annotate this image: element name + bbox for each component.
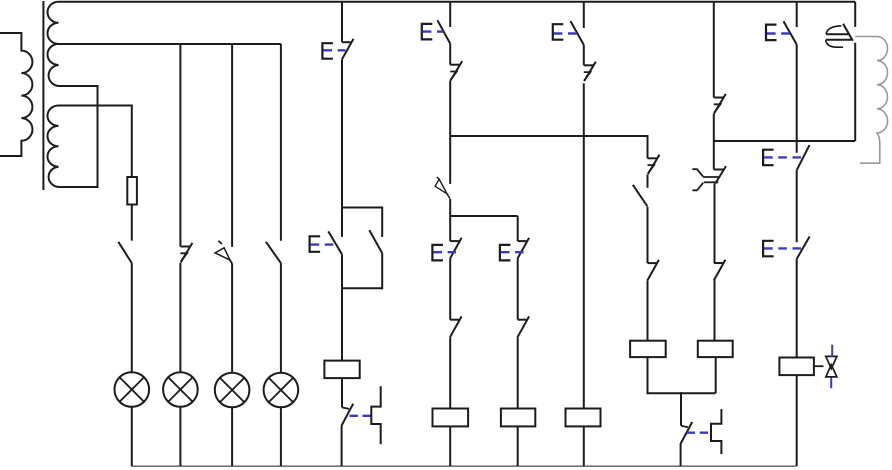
top supply rail L1	[59, 1, 856, 3]
wire Q6 to arc contact	[713, 113, 715, 169]
wire split to pushbutton E4	[449, 216, 451, 241]
pushbutton E6 blade	[571, 21, 584, 45]
linked contact mid dashes	[687, 432, 709, 434]
wire coil K5 to converge	[647, 357, 649, 393]
NC pushbutton E5	[518, 240, 527, 242]
pushbutton E4 label E	[432, 245, 443, 261]
wire lamp H1 to N rail	[131, 407, 133, 466]
lamp H1 circle	[115, 372, 150, 407]
wire lamp H3 to N rail	[231, 407, 233, 466]
transformer T1 lower secondary winding	[48, 106, 59, 188]
valve pilot line top	[831, 345, 833, 357]
linked contact mid	[681, 426, 688, 428]
lamp H2 cross stroke	[168, 377, 192, 401]
wire L2 rail end to switch S4	[280, 44, 282, 241]
transformer T1 core	[42, 1, 44, 190]
wire S4 to lamp H4	[280, 263, 282, 373]
relay coil K6	[698, 341, 733, 357]
NC contact K2a	[450, 319, 459, 321]
pushbutton E7 blade	[784, 21, 797, 44]
pushbutton E3 link dashes	[423, 30, 444, 32]
arc contact tick	[714, 169, 725, 171]
limit switch S3 link	[230, 260, 232, 263]
NC contact K3a	[518, 316, 530, 337]
wire lamp H4 to N rail	[280, 407, 282, 466]
breaker contact Q4	[584, 64, 593, 66]
wedge contact S5 tick	[437, 177, 439, 179]
switch S4 blade	[266, 242, 281, 263]
arc-quench bar 2	[826, 39, 852, 41]
wire K2a to coil K2	[449, 337, 451, 408]
arc-quench bottom arc	[826, 40, 843, 47]
transformer T1 primary winding	[0, 33, 32, 156]
bottom return rail N	[131, 465, 797, 467]
NO contact K4a blade	[633, 185, 648, 207]
pushbutton E8 label E	[763, 150, 774, 166]
lamp H4 cross stroke 2	[269, 378, 293, 402]
breaker contact Q6	[714, 104, 721, 112]
wire lamp H2 to N rail	[179, 407, 181, 466]
valve symbol upper triangle	[826, 356, 837, 368]
valve link wire	[814, 365, 824, 367]
wedge contact S5 link	[447, 194, 450, 199]
wedge contact S5 wedge	[435, 179, 447, 194]
wire arc-quench to node row	[854, 43, 856, 141]
valve symbol lower triangle	[826, 365, 837, 377]
NC pushbutton E1	[342, 39, 354, 60]
solenoid coil Y1	[779, 358, 814, 376]
seal-in branch upper wire	[381, 207, 383, 237]
wire L2 rail to breaker Q2	[179, 44, 181, 247]
pushbutton E2 link dashes	[311, 243, 335, 245]
NC contact K3a	[518, 319, 527, 321]
parallel group top wire	[342, 207, 382, 209]
wire coil K4 to N rail	[583, 426, 585, 466]
arc-quench top arc	[826, 26, 841, 34]
wire Q2 to lamp H2	[179, 263, 181, 373]
arc-quench contact blade	[843, 24, 853, 41]
wire Q3 through node to wedge contact	[449, 81, 451, 184]
linked contact mid	[681, 422, 693, 444]
limit switch S3 wedge	[215, 248, 230, 260]
pushbutton E4 link dashes	[433, 251, 456, 253]
arc-quench bar 1	[826, 33, 850, 35]
relay coil K2	[433, 409, 469, 427]
breaker contact Q6	[714, 97, 723, 99]
NC contact K6a	[714, 260, 726, 281]
wire E3 to breaker Q3	[449, 44, 451, 65]
pushbutton E9 blade	[797, 237, 810, 259]
wire node row to pushbutton E8	[796, 141, 798, 153]
wire upper-secondary bottom tap	[59, 86, 98, 187]
arc contact bar 1	[703, 176, 719, 178]
pushbutton E5 link dashes	[501, 251, 524, 253]
wire linked contact to N rail	[341, 426, 343, 467]
wire linked contact mid to N rail	[680, 443, 682, 466]
second rail L2	[59, 43, 281, 45]
transformer T1 upper secondary winding	[48, 2, 59, 86]
parallel group bottom wire	[342, 287, 382, 289]
wire node row y141	[714, 140, 855, 142]
breaker contact Q3	[450, 72, 457, 80]
lamp H3 circle	[215, 373, 250, 408]
wire S5 to branch split	[449, 199, 451, 217]
wire arc contact to contact K6a	[714, 184, 716, 264]
pushbutton E5 label E	[500, 245, 511, 261]
valve pilot line bottom	[830, 377, 832, 388]
lamp H2 cross stroke 2	[168, 377, 192, 401]
pushbutton E8 link dashes	[764, 156, 802, 158]
wire L1 to pushbutton E3	[449, 2, 451, 27]
breaker contact Q4	[584, 72, 591, 80]
wire E1 to parallel group	[341, 60, 343, 209]
NC pushbutton E4	[450, 238, 462, 259]
limit switch S3 actuator tick	[219, 241, 222, 244]
relay coil K1	[324, 361, 359, 379]
fuse F1	[127, 177, 137, 205]
pushbutton E3 label E	[422, 24, 433, 40]
seal-in branch lower wire	[381, 253, 383, 289]
wire K4a to contact K5a	[647, 207, 649, 263]
wire group to coil K1	[341, 288, 343, 360]
lamp H4 cross stroke	[269, 378, 293, 402]
wire K6a to coil K6	[714, 281, 716, 341]
converge wire	[647, 392, 716, 394]
wire L1 right end down	[854, 2, 856, 27]
wire L1 to contact E1	[341, 2, 343, 43]
linked contact under K1	[342, 404, 354, 426]
wire node to breaker Q5	[647, 135, 649, 158]
wire K5a to coil K5	[647, 281, 649, 341]
wire K3a to coil K3	[517, 337, 519, 408]
lamp H1 cross stroke 2	[120, 377, 144, 401]
relay coil K4	[566, 409, 601, 427]
switch S1 blade	[118, 242, 132, 263]
wire split to pushbutton E5	[517, 216, 519, 241]
lamp H4 circle	[264, 373, 299, 408]
wire E7 to node row	[796, 45, 798, 142]
mechanical latch bracket mid	[711, 409, 721, 454]
pushbutton E3 blade	[437, 20, 450, 43]
breaker contact Q5	[648, 165, 655, 173]
NC pushbutton E4	[450, 240, 459, 242]
solenoid lead	[855, 36, 877, 38]
wire L1 to pushbutton E6	[583, 2, 585, 28]
wire E8 to pushbutton E9	[796, 170, 798, 242]
wire S1 to lamp H1	[131, 263, 133, 372]
wire Q4 to coil K4	[583, 83, 585, 408]
NC contact K2a	[450, 316, 462, 337]
pushbutton E1 link dashes	[323, 49, 345, 51]
breaker contact Q6	[714, 94, 726, 113]
wire coil Y1 to N rail	[796, 375, 798, 466]
pushbutton E9 link dashes	[764, 247, 802, 249]
wire E2 to group bottom	[341, 254, 343, 289]
pushbutton E9 label E	[763, 241, 774, 256]
breaker contact Q4	[584, 62, 596, 81]
arc contact blade	[715, 166, 726, 183]
wire coil K6 to converge	[715, 357, 717, 393]
pushbutton E7 link dashes	[767, 32, 792, 34]
NC pushbutton E1	[342, 41, 351, 43]
wire L2 rail to limit switch S3	[231, 44, 233, 247]
lamp H3 cross stroke	[220, 378, 244, 402]
pushbutton E8 blade	[797, 145, 810, 170]
pushbutton E6 link dashes	[554, 32, 577, 34]
wire lower-secondary to fuse	[59, 106, 132, 178]
breaker contact Q5	[648, 157, 657, 159]
breaker contact Q2	[181, 243, 193, 262]
mechanical latch bracket	[371, 386, 380, 444]
linked contact dashes	[350, 415, 371, 417]
wire L1 to breaker Q6	[713, 2, 715, 98]
breaker contact Q3	[451, 61, 463, 80]
NC contact K5a	[647, 260, 659, 281]
wire E4 to contact K2a	[449, 259, 451, 320]
wire E9 to coil Y1	[796, 259, 798, 358]
wire L1 to pushbutton E7	[796, 2, 798, 27]
pushbutton E2 label E	[310, 236, 321, 252]
pushbutton E6 label E	[553, 24, 564, 40]
wire node row y136	[450, 135, 647, 137]
pushbutton E7 label E	[766, 25, 777, 40]
wire E5 to contact K3a	[517, 259, 519, 320]
wire E6 to breaker Q4	[583, 45, 585, 65]
breaker contact Q5	[648, 155, 660, 174]
wire Q5 to contact K4a	[647, 175, 649, 188]
lamp H2 circle	[163, 372, 198, 407]
breaker contact Q3	[450, 64, 459, 66]
wire coil K2 to N rail	[449, 426, 451, 466]
wire S3 to lamp H3	[231, 264, 233, 373]
wire fuse to switch S1	[131, 205, 133, 241]
breaker contact Q2	[180, 246, 189, 248]
arc contact bar 2	[704, 181, 719, 183]
lamp H1 cross stroke	[120, 377, 144, 401]
breaker contact Q2	[180, 253, 187, 261]
arc contact upper-left lead	[692, 169, 703, 176]
NC pushbutton E5	[518, 238, 530, 259]
branch split wire	[450, 215, 518, 217]
NC contact K5a	[648, 262, 657, 264]
wire coil K1 to linked contact	[341, 378, 343, 407]
lamp H3 cross stroke 2	[220, 378, 244, 402]
seal-in contact K1 blade	[369, 230, 382, 253]
NC contact K6a	[714, 262, 723, 264]
wire to stop button E2	[341, 208, 343, 237]
stop pushbutton E2 blade	[328, 231, 342, 254]
linked contact under K1	[342, 407, 349, 409]
wire converge to linked contact	[680, 392, 682, 426]
arc contact lower-left lead	[692, 183, 703, 191]
relay coil K5	[630, 341, 666, 357]
wire coil K3 to N rail	[517, 426, 519, 466]
relay coil K3	[501, 409, 535, 427]
solenoid winding	[860, 37, 888, 164]
pushbutton E1 label E	[322, 43, 333, 59]
